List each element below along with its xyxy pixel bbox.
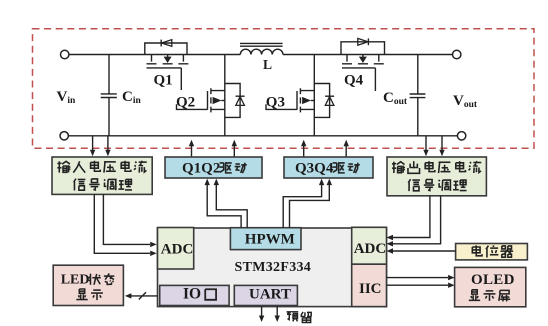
wire HPWM to Q1Q2 driver (ch2) xyxy=(214,179,248,228)
inductor L xyxy=(240,43,283,54)
svg-text:Q1Q2: Q1Q2 xyxy=(182,161,220,177)
block ADC1 (left) xyxy=(158,228,194,270)
block OLED display xyxy=(455,267,526,306)
capacitor Cout xyxy=(410,55,426,136)
wire potentiometer to ADC2 xyxy=(387,248,456,253)
wire Q4 gate lead xyxy=(374,68,376,91)
diode D1 (Q1 bypass diode) xyxy=(145,40,187,55)
wire Q3 gate lead xyxy=(266,104,297,109)
terminal Vout- xyxy=(457,132,465,140)
wire IO port to LED display (with bus slash) xyxy=(125,292,158,299)
svg-text:HPWM: HPWM xyxy=(245,232,295,248)
wire input voltage/current sense taps xyxy=(90,136,111,156)
block output signal conditioning xyxy=(387,157,486,196)
wire HPWM to Q3Q4 driver (ch2) xyxy=(290,179,333,228)
capacitor Cin xyxy=(101,55,117,136)
block ADC2 (right) xyxy=(352,227,387,264)
block input signal conditioning xyxy=(52,157,152,194)
transistor Q1 xyxy=(147,55,189,68)
svg-text:Q3: Q3 xyxy=(266,94,285,110)
svg-text:UART: UART xyxy=(249,287,291,303)
svg-text:LED: LED xyxy=(61,272,90,287)
wire input conditioning to ADC1 (ch2) xyxy=(103,194,156,247)
terminal Vout+ xyxy=(453,50,461,58)
transistor Q2 xyxy=(208,88,225,112)
wire Q1Q2 gate drive outputs xyxy=(189,140,237,158)
wire Q3 drain/source xyxy=(313,55,315,136)
wire bottom rail xyxy=(69,135,458,137)
wire IIC to OLED (SDA) xyxy=(387,283,455,288)
wire UART reserved pins xyxy=(259,307,280,323)
svg-text:STM32F334: STM32F334 xyxy=(235,260,312,275)
svg-text:Q2: Q2 xyxy=(176,94,195,110)
wire input conditioning to ADC1 (ch1) xyxy=(94,194,156,256)
block IO port xyxy=(160,285,229,305)
diode body diode of Q2 xyxy=(225,84,245,118)
terminal Vin- xyxy=(60,132,68,140)
block Q1Q2 gate driver xyxy=(165,157,262,178)
block Q3Q4 gate driver xyxy=(284,157,373,178)
block MCU STM32F334 xyxy=(158,228,387,307)
wire Q2 drain/source xyxy=(224,55,226,136)
wire output conditioning to ADC2 (ch2) xyxy=(387,196,441,247)
svg-text:OLED: OLED xyxy=(471,272,515,288)
svg-text:ADC: ADC xyxy=(161,242,194,258)
wire HPWM to Q3Q4 driver (ch1) xyxy=(283,179,324,228)
svg-text:Q3Q4: Q3Q4 xyxy=(295,161,334,177)
wire Q2 gate lead xyxy=(177,104,208,109)
diode D4 (Q4 bypass diode) xyxy=(341,38,385,54)
block UART xyxy=(234,285,297,305)
wire IIC to OLED (SCL) xyxy=(387,275,455,280)
block potentiometer xyxy=(456,244,528,260)
svg-text:IIC: IIC xyxy=(359,281,382,297)
terminal Vin+ xyxy=(60,50,68,58)
dashed boundary of power stage xyxy=(33,29,535,149)
wire Q3Q4 gate drive outputs xyxy=(301,140,349,157)
wire HPWM to Q1Q2 driver (ch1) xyxy=(205,179,242,228)
svg-text:L: L xyxy=(263,57,272,72)
svg-text:Q1: Q1 xyxy=(154,73,173,89)
svg-text:Q4: Q4 xyxy=(344,73,364,89)
wire output voltage/current sense taps xyxy=(423,136,444,156)
block HPWM xyxy=(230,228,301,250)
wire top rail xyxy=(69,54,452,56)
wire output conditioning to ADC2 (ch1) xyxy=(387,196,430,240)
transistor Q3 xyxy=(297,88,314,112)
block IIC xyxy=(352,264,387,306)
label reserved (yuliu) xyxy=(287,312,312,323)
transistor Q4 xyxy=(342,55,384,68)
diode body diode of Q3 xyxy=(314,84,334,118)
wire Q1 gate lead xyxy=(180,68,182,90)
svg-text:ADC: ADC xyxy=(354,241,387,257)
block LED status display xyxy=(53,265,123,305)
svg-text:IO: IO xyxy=(183,286,201,303)
